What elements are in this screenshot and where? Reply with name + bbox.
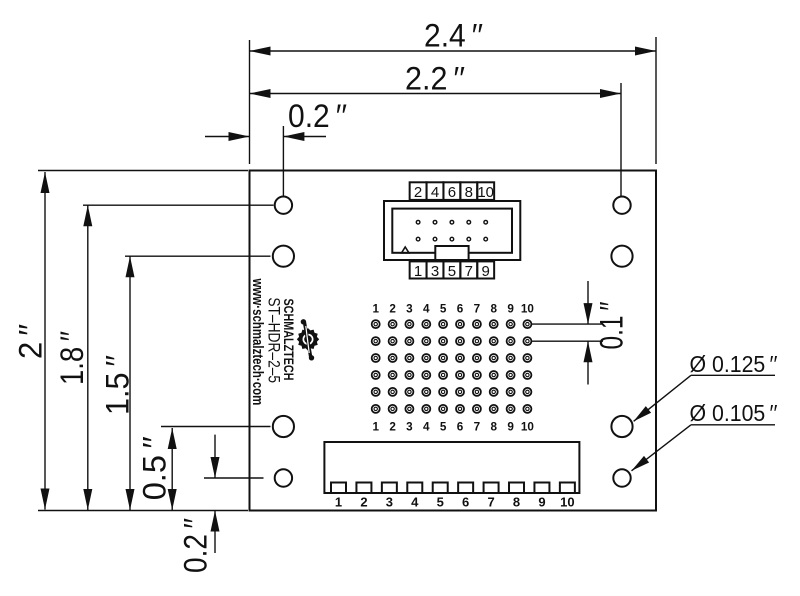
svg-text:SCHMALZTECH: SCHMALZTECH bbox=[281, 299, 297, 381]
svg-text:10: 10 bbox=[477, 184, 494, 201]
svg-text:10: 10 bbox=[521, 303, 535, 316]
svg-text:5: 5 bbox=[440, 421, 447, 434]
svg-text:2.4 ′′: 2.4 ′′ bbox=[424, 18, 483, 54]
svg-text:www·schmalztech·com: www·schmalztech·com bbox=[249, 278, 266, 406]
svg-text:3: 3 bbox=[406, 303, 413, 316]
svg-text:5: 5 bbox=[448, 263, 456, 280]
svg-text:4: 4 bbox=[411, 494, 419, 509]
svg-text:6: 6 bbox=[462, 494, 469, 509]
svg-text:3: 3 bbox=[406, 421, 413, 434]
svg-text:2 ′′: 2 ′′ bbox=[13, 324, 49, 359]
svg-text:0.2 ′′: 0.2 ′′ bbox=[288, 98, 347, 134]
svg-text:1: 1 bbox=[372, 421, 379, 434]
svg-text:1.5 ′′: 1.5 ′′ bbox=[100, 355, 136, 415]
svg-text:0.5 ′′: 0.5 ′′ bbox=[137, 436, 173, 500]
svg-text:6: 6 bbox=[457, 303, 464, 316]
svg-text:ST–HDR–2–5: ST–HDR–2–5 bbox=[264, 297, 283, 383]
svg-text:7: 7 bbox=[487, 494, 494, 509]
svg-text:4: 4 bbox=[423, 421, 430, 434]
svg-text:2: 2 bbox=[360, 494, 367, 509]
svg-text:6: 6 bbox=[457, 421, 464, 434]
svg-text:9: 9 bbox=[507, 421, 514, 434]
svg-text:Ø 0.105 ′′: Ø 0.105 ′′ bbox=[690, 400, 778, 426]
svg-text:Ø 0.125 ′′: Ø 0.125 ′′ bbox=[690, 351, 778, 377]
svg-text:6: 6 bbox=[448, 184, 456, 201]
svg-text:1: 1 bbox=[372, 303, 379, 316]
svg-text:7: 7 bbox=[474, 421, 481, 434]
svg-text:7: 7 bbox=[465, 263, 473, 280]
svg-text:9: 9 bbox=[507, 303, 514, 316]
svg-text:1: 1 bbox=[335, 494, 342, 509]
svg-text:3: 3 bbox=[386, 494, 393, 509]
svg-text:2: 2 bbox=[414, 184, 422, 201]
svg-text:8: 8 bbox=[490, 303, 497, 316]
svg-text:2.2 ′′: 2.2 ′′ bbox=[405, 61, 465, 97]
svg-text:7: 7 bbox=[474, 303, 481, 316]
svg-text:2: 2 bbox=[389, 303, 396, 316]
svg-text:10: 10 bbox=[521, 421, 535, 434]
svg-text:8: 8 bbox=[465, 184, 473, 201]
svg-text:0.2 ′′: 0.2 ′′ bbox=[178, 518, 214, 573]
svg-text:2: 2 bbox=[389, 421, 396, 434]
svg-text:1.8 ′′: 1.8 ′′ bbox=[54, 331, 90, 385]
svg-text:1: 1 bbox=[414, 263, 422, 280]
svg-text:10: 10 bbox=[560, 494, 574, 509]
svg-text:4: 4 bbox=[431, 184, 439, 201]
svg-text:3: 3 bbox=[431, 263, 439, 280]
svg-text:9: 9 bbox=[538, 494, 545, 509]
svg-text:8: 8 bbox=[490, 421, 497, 434]
svg-text:0.1 ′′: 0.1 ′′ bbox=[594, 302, 630, 350]
svg-text:4: 4 bbox=[423, 303, 430, 316]
svg-text:8: 8 bbox=[513, 494, 520, 509]
svg-text:9: 9 bbox=[482, 263, 490, 280]
svg-text:5: 5 bbox=[437, 494, 444, 509]
svg-text:5: 5 bbox=[440, 303, 447, 316]
